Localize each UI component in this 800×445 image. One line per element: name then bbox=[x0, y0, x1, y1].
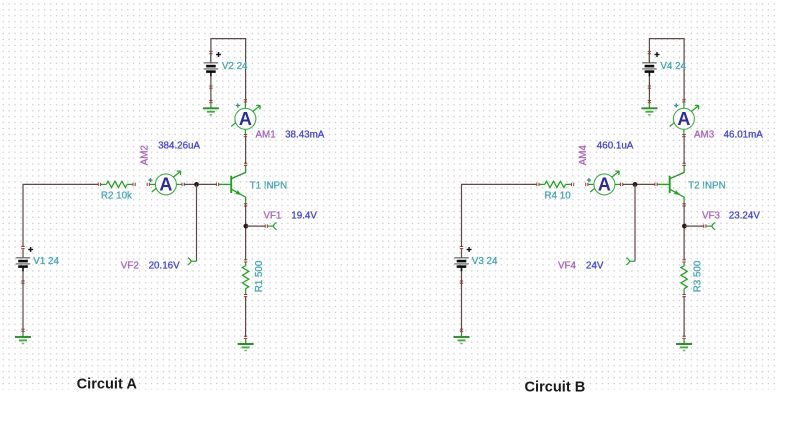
voltage probe VF4 bbox=[626, 258, 635, 265]
wire bbox=[649, 39, 684, 102]
svg-text:VF3: VF3 bbox=[702, 210, 721, 221]
svg-text:AM1: AM1 bbox=[256, 130, 276, 141]
ammeter AM3 bbox=[670, 100, 699, 137]
svg-text:Circuit B: Circuit B bbox=[525, 380, 586, 396]
wire bbox=[245, 135, 247, 164]
svg-text:A: A bbox=[159, 175, 172, 195]
svg-text:R4 10: R4 10 bbox=[545, 191, 572, 202]
wire bbox=[462, 184, 538, 247]
svg-text:AM3: AM3 bbox=[694, 130, 715, 141]
ground bbox=[676, 336, 692, 350]
resistor R3 bbox=[681, 260, 687, 297]
wire bbox=[683, 296, 685, 337]
ground bbox=[203, 101, 219, 115]
ammeter AM1 bbox=[231, 100, 260, 137]
wire bbox=[683, 135, 685, 164]
svg-text:20.16V: 20.16V bbox=[149, 260, 181, 271]
ground bbox=[15, 329, 31, 343]
svg-text:AM2: AM2 bbox=[140, 145, 151, 165]
svg-text:19.4V: 19.4V bbox=[291, 210, 317, 221]
svg-text:A: A bbox=[598, 175, 611, 195]
svg-text:460.1uA: 460.1uA bbox=[597, 141, 634, 152]
svg-text:R2 10k: R2 10k bbox=[101, 191, 132, 202]
battery V4 bbox=[642, 51, 659, 88]
svg-text:T1 !NPN: T1 !NPN bbox=[250, 180, 288, 191]
svg-text:VF4: VF4 bbox=[558, 260, 577, 271]
wire bbox=[23, 184, 99, 247]
wire bbox=[634, 184, 636, 261]
wire bbox=[196, 184, 198, 261]
svg-text:R3 500: R3 500 bbox=[692, 260, 703, 292]
svg-text:AM4: AM4 bbox=[578, 145, 589, 166]
wire bbox=[683, 203, 685, 260]
wire bbox=[245, 296, 247, 337]
svg-text:R1 500: R1 500 bbox=[254, 260, 265, 292]
svg-text:A: A bbox=[677, 109, 690, 129]
wire bbox=[461, 280, 463, 331]
battery V1 bbox=[16, 246, 33, 283]
battery V2 bbox=[204, 51, 221, 88]
svg-text:23.24V: 23.24V bbox=[729, 210, 761, 221]
ground bbox=[454, 329, 470, 343]
wire bbox=[245, 203, 247, 260]
svg-text:VF2: VF2 bbox=[121, 260, 139, 271]
wire bbox=[211, 39, 246, 102]
svg-text:Circuit A: Circuit A bbox=[77, 377, 138, 393]
voltage probe VF2 bbox=[188, 258, 197, 265]
wire bbox=[684, 225, 704, 227]
voltage probe VF1 bbox=[265, 224, 267, 227]
wire bbox=[184, 183, 217, 185]
node base junction bbox=[633, 182, 638, 187]
ammeter AM4 bbox=[586, 171, 623, 195]
svg-text:V3 24: V3 24 bbox=[472, 256, 498, 267]
svg-text:24V: 24V bbox=[586, 260, 604, 271]
svg-text:VF1: VF1 bbox=[264, 210, 282, 221]
svg-text:V4 24: V4 24 bbox=[660, 61, 686, 72]
wire bbox=[623, 183, 656, 185]
svg-text:46.01mA: 46.01mA bbox=[724, 130, 764, 141]
wire bbox=[246, 225, 266, 227]
node emitter junction bbox=[682, 224, 687, 229]
wire bbox=[210, 86, 212, 103]
svg-text:A: A bbox=[239, 109, 252, 129]
ammeter AM2 bbox=[147, 171, 184, 195]
ground bbox=[238, 336, 254, 350]
svg-text:384.26uA: 384.26uA bbox=[158, 141, 200, 152]
wire bbox=[22, 280, 24, 331]
ground bbox=[641, 101, 657, 115]
voltage probe VF3 bbox=[704, 224, 706, 227]
wire bbox=[648, 86, 650, 103]
node emitter junction bbox=[244, 224, 249, 229]
svg-text:T2 !NPN: T2 !NPN bbox=[688, 180, 726, 191]
transistor T1 bbox=[216, 163, 247, 206]
svg-text:38.43mA: 38.43mA bbox=[285, 130, 325, 141]
resistor R2 bbox=[98, 181, 135, 187]
transistor T2 bbox=[655, 163, 686, 206]
resistor R4 bbox=[537, 181, 574, 187]
resistor R1 bbox=[242, 260, 248, 297]
svg-text:V1 24: V1 24 bbox=[33, 256, 59, 267]
battery V3 bbox=[454, 246, 471, 283]
node base junction bbox=[194, 182, 199, 187]
svg-text:V2 24: V2 24 bbox=[222, 61, 248, 72]
